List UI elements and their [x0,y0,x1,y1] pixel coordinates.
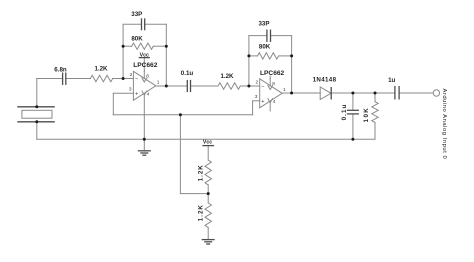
svg-text:0.1u: 0.1u [181,70,194,77]
svg-text:3: 3 [129,87,132,93]
svg-text:−: − [261,84,264,90]
svg-text:8: 8 [272,81,275,87]
svg-text:1.2K: 1.2K [220,73,234,80]
svg-text:6.8n: 6.8n [54,66,67,73]
svg-text:2: 2 [130,72,133,78]
svg-text:+: + [261,99,264,105]
svg-text:1.2K: 1.2K [198,164,205,181]
svg-text:10K: 10K [363,107,370,123]
svg-text:8: 8 [146,74,149,80]
svg-text:LPC662: LPC662 [133,62,158,69]
svg-text:1: 1 [283,87,286,93]
svg-text:80K: 80K [131,35,143,42]
svg-text:0.1u: 0.1u [341,104,348,121]
svg-text:4: 4 [273,99,276,105]
svg-text:1u: 1u [388,77,395,84]
svg-text:1.2K: 1.2K [94,66,108,73]
svg-text:4: 4 [147,92,150,98]
svg-text:1.2K: 1.2K [198,204,205,221]
svg-text:1: 1 [157,79,160,85]
svg-text:80K: 80K [259,44,271,51]
svg-text:Arduino Analog Input 0: Arduino Analog Input 0 [441,89,447,160]
svg-text:33P: 33P [131,11,142,18]
svg-text:3: 3 [255,94,258,100]
svg-text:2: 2 [256,80,259,86]
svg-text:+: + [135,92,138,98]
svg-text:Vcc: Vcc [203,140,212,146]
svg-text:33P: 33P [258,20,269,27]
svg-text:LPC662: LPC662 [260,70,285,77]
svg-text:Vcc: Vcc [140,52,149,58]
svg-text:−: − [135,77,138,83]
svg-text:1N4148: 1N4148 [313,76,337,83]
